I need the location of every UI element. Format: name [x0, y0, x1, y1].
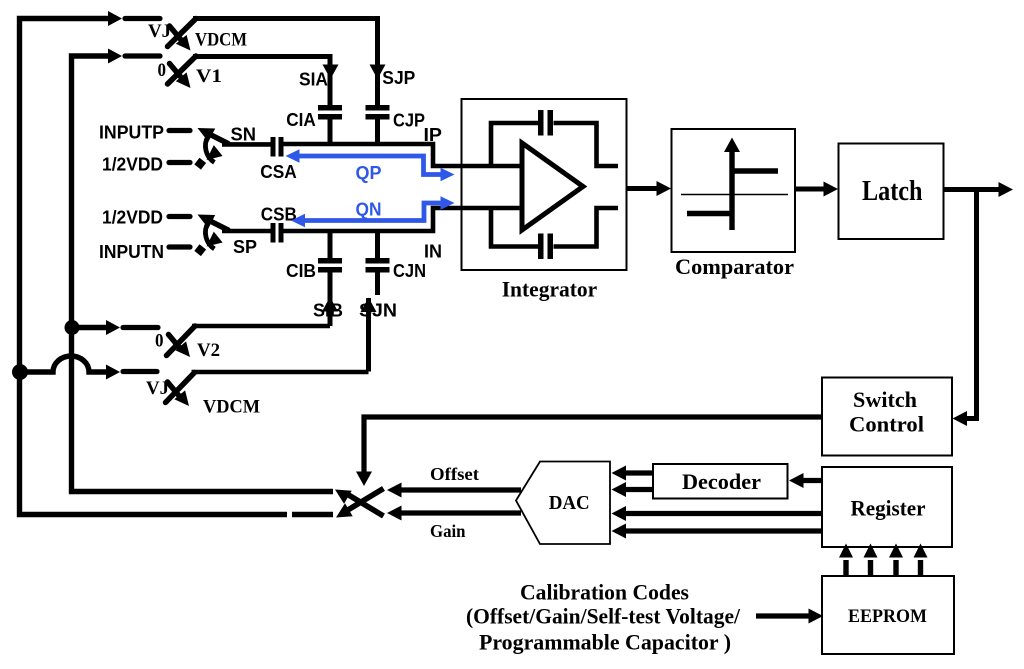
latch box	[839, 144, 944, 240]
arrow SJN	[361, 298, 377, 313]
node junction dot at inner rail / V2 branch	[65, 320, 80, 335]
switch S-VJ1 throw arrow	[170, 26, 191, 51]
wire row4 to SJN column	[192, 370, 369, 375]
arrow EEPROM to register 2	[864, 544, 878, 577]
integrator top feedback capacitor	[538, 110, 553, 136]
svg-text:1/2VDD: 1/2VDD	[102, 155, 163, 175]
svg-text:Calibration Codes: Calibration Codes	[520, 580, 689, 605]
wire bus IP to integrator	[284, 144, 523, 166]
wire V2 branch from dot	[72, 325, 107, 330]
svg-text:CIB: CIB	[286, 261, 316, 281]
blue feedback arrow QP	[286, 149, 455, 181]
svg-text:INPUTN: INPUTN	[99, 242, 164, 262]
wire SP pivot to CSB	[222, 229, 271, 234]
switch S-V1 contact stub	[125, 53, 160, 58]
arrow comparator to latch	[795, 182, 838, 197]
arrow EEPROM to register 4	[914, 544, 928, 577]
arrow integrator to comparator	[627, 181, 672, 196]
switch SN arm to INPUTP	[198, 128, 229, 144]
switch S-VJ2 contact stub	[123, 369, 157, 374]
svg-text:CSB: CSB	[261, 205, 297, 225]
svg-text:VDCM: VDCM	[203, 397, 260, 418]
arrow SIA on CIA column	[323, 65, 339, 80]
wire latch output branch to switch control	[953, 190, 977, 427]
eeprom box	[822, 576, 954, 654]
arrow SJP on CJP column	[370, 65, 386, 80]
arrowhead down into crossbar	[356, 472, 372, 487]
svg-text:1/2VDD: 1/2VDD	[102, 208, 163, 228]
svg-text:Latch: Latch	[862, 176, 923, 207]
wire row1 to SJP column	[193, 19, 378, 106]
capacitor CJN	[366, 233, 390, 295]
register box	[822, 467, 952, 547]
wire SN pivot to CSA	[222, 142, 271, 147]
crossbar swap arrow upper-right to lower-left	[336, 489, 384, 518]
svg-text:Switch: Switch	[853, 387, 917, 412]
wire row2 to SIA column	[193, 57, 330, 106]
switch S-V2 throw arrow	[169, 335, 191, 358]
switch S-V1 throw arrow	[170, 64, 191, 89]
blue feedback arrow QN	[291, 196, 455, 227]
svg-text:CSA: CSA	[260, 162, 297, 182]
arrowhead into 0/V1 switch row2	[108, 49, 122, 64]
wire latch output	[944, 182, 1014, 197]
capacitor CJP	[366, 105, 390, 144]
svg-text:Decoder: Decoder	[682, 469, 761, 494]
svg-text:(Offset/Gain/Self-test Voltage: (Offset/Gain/Self-test Voltage/	[466, 604, 741, 629]
decoder box	[653, 464, 788, 499]
wire SJN column	[366, 298, 371, 372]
wire VJ2 branch with hop over inner rail	[20, 356, 106, 372]
switch S-V2 arm diagonal	[167, 326, 196, 356]
arrow calibration codes to EEPROM	[756, 609, 823, 624]
wire inner-left rail (row2 0/V1 loop)	[72, 56, 334, 492]
INPUTP contact stub	[169, 128, 190, 133]
1/2VDD lower contact stub	[169, 214, 190, 219]
integrator bottom feedback capacitor	[538, 234, 553, 260]
svg-text:SIA: SIA	[299, 70, 328, 90]
wire row3 to SIB column	[192, 324, 330, 329]
switch S-V2 contact stub	[123, 325, 158, 330]
comparator step symbol	[681, 138, 788, 231]
arrow EEPROM to register 3	[889, 544, 903, 577]
svg-text:INPUTP: INPUTP	[99, 123, 164, 143]
svg-text:0: 0	[158, 60, 167, 81]
svg-text:Comparator: Comparator	[675, 254, 794, 279]
svg-text:VDCM: VDCM	[195, 30, 247, 51]
svg-text:0: 0	[155, 331, 164, 352]
arrow decoder to DAC 1	[612, 466, 654, 481]
1/2VDD upper contact stub	[169, 160, 190, 165]
switch S-VJ1 arm diagonal	[168, 19, 197, 47]
switch SN dashed throw to 1/2VDD	[194, 145, 222, 169]
svg-text:SP: SP	[233, 237, 257, 257]
arrow EEPROM to register 1	[839, 544, 853, 577]
integrator top feedback wire	[491, 123, 618, 166]
switch SN rotation arc	[205, 136, 214, 162]
arrow SIB on CIB column	[322, 297, 338, 312]
switch SP arm to 1/2VDD	[198, 215, 229, 231]
svg-text:CJP: CJP	[393, 111, 425, 131]
svg-text:Offset: Offset	[430, 464, 479, 484]
svg-text:Register: Register	[851, 496, 926, 521]
switch S-V1 arm diagonal	[168, 56, 197, 84]
svg-text:V1: V1	[196, 66, 222, 87]
capacitor CIA	[318, 105, 342, 144]
svg-text:CJN: CJN	[393, 261, 426, 281]
crossbar swap arrow lower-right to upper-left	[335, 490, 384, 517]
svg-text:QN: QN	[356, 200, 382, 220]
arrowhead into VJ switch row1	[108, 11, 122, 26]
svg-text:V2: V2	[197, 340, 220, 361]
svg-text:Programmable Capacitor ): Programmable Capacitor )	[479, 630, 731, 655]
switch S-VJ1 contact stub	[125, 16, 160, 21]
capacitor CIB	[318, 233, 342, 326]
integrator box	[462, 99, 627, 270]
node junction dot at outer rail / VJ2 branch	[12, 364, 28, 380]
arrow DAC offset output	[387, 483, 521, 498]
svg-text:DAC: DAC	[549, 493, 590, 514]
arrow register to DAC 4	[612, 524, 823, 539]
arrow register to DAC 3	[612, 506, 823, 521]
svg-text:SJP: SJP	[382, 68, 415, 88]
switch S-VJ2 arm diagonal	[166, 373, 195, 403]
svg-text:EEPROM: EEPROM	[848, 606, 927, 627]
svg-text:QP: QP	[356, 163, 382, 183]
INPUTN contact stub	[169, 244, 190, 249]
wire bus IN to integrator	[284, 208, 523, 231]
svg-text:IN: IN	[424, 242, 442, 262]
switch SP dashed throw to INPUTN	[194, 232, 222, 256]
op-amp U1 triangle	[522, 143, 583, 230]
arrowhead into V2 switch	[106, 320, 120, 335]
DAC pentagon	[516, 462, 610, 545]
arrow register to decoder	[789, 473, 822, 488]
svg-text:Gain: Gain	[430, 521, 466, 541]
label Switch Control	[849, 387, 924, 437]
arrow decoder to DAC 2	[612, 482, 654, 497]
svg-text:Control: Control	[849, 412, 924, 437]
svg-text:CIA: CIA	[286, 110, 316, 130]
switch SP rotation arc	[205, 223, 214, 249]
svg-text:SN: SN	[231, 125, 257, 145]
wire switch control to crossbar	[364, 417, 822, 472]
wire outer-left rail (row1 VJ loop)	[20, 19, 334, 515]
comparator box	[672, 129, 796, 252]
integrator bottom feedback wire	[491, 208, 618, 247]
switch S-VJ2 throw arrow	[168, 382, 190, 406]
capacitor CSA	[271, 137, 284, 157]
arrowhead into VJ2 switch	[106, 365, 120, 380]
arrow DAC gain output	[387, 506, 521, 521]
svg-text:IP: IP	[424, 125, 443, 145]
switch control box	[822, 378, 952, 456]
capacitor CSB	[271, 223, 284, 243]
svg-text:Integrator: Integrator	[502, 277, 598, 302]
